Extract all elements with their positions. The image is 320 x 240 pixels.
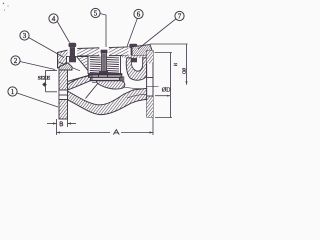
body right top xyxy=(132,45,153,56)
balloon 3 xyxy=(20,31,29,40)
body outlet hook wall xyxy=(126,58,146,80)
balloon 5 xyxy=(91,8,100,17)
dimension H vertical xyxy=(150,44,188,85)
body joint line xyxy=(58,62,81,71)
body right flange xyxy=(147,51,159,118)
leader 6 xyxy=(127,19,137,47)
body right upper block xyxy=(122,56,147,58)
dimension A xyxy=(57,118,154,136)
balloon 4 xyxy=(49,14,58,23)
svg-text:ØD: ØD xyxy=(162,86,171,93)
balloon 1 xyxy=(8,87,17,96)
seat lip xyxy=(120,76,125,83)
inlet upper wall band xyxy=(68,75,93,91)
bonnet plate xyxy=(77,47,133,56)
scan specks xyxy=(3,3,9,11)
body left flange xyxy=(59,70,68,119)
svg-text:H: H xyxy=(173,63,178,66)
leader 1 xyxy=(17,93,58,107)
bolt left B1 xyxy=(69,43,77,63)
svg-text:5: 5 xyxy=(94,10,98,18)
leader 3 xyxy=(29,38,64,58)
svg-text:4: 4 xyxy=(52,15,56,23)
disc xyxy=(88,74,122,82)
bolt hole right xyxy=(128,47,138,56)
leader 2 xyxy=(20,62,55,70)
weir wall line xyxy=(86,82,100,99)
balloon 2 xyxy=(11,56,20,65)
leader 5 xyxy=(100,14,106,48)
balloon 7 xyxy=(175,11,184,20)
stem hole xyxy=(99,47,109,56)
dimension SIZE xyxy=(46,71,58,92)
outlet passage lines xyxy=(123,87,147,89)
body left shoulder xyxy=(58,50,77,69)
leader lines xyxy=(17,14,176,108)
svg-text:ØD: ØD xyxy=(182,68,187,74)
svg-text:1: 1 xyxy=(11,88,15,96)
spring chamber walls xyxy=(87,56,89,74)
outlet bore bottom line xyxy=(127,94,147,98)
svg-text:SIZE: SIZE xyxy=(38,75,51,81)
svg-text:3: 3 xyxy=(23,32,27,40)
svg-text:2: 2 xyxy=(14,57,18,65)
dimension OD vertical xyxy=(155,53,173,118)
stem xyxy=(99,50,108,74)
balloons xyxy=(8,8,184,96)
body bottom S-wall xyxy=(68,88,147,114)
seat weir xyxy=(96,81,124,89)
leader 4 xyxy=(57,21,70,43)
balloon 6 xyxy=(134,9,143,18)
bolt right B2 xyxy=(129,44,137,63)
svg-text:7: 7 xyxy=(178,13,182,21)
bolt hole left xyxy=(68,47,78,56)
dimension B xyxy=(47,119,76,135)
spring coils xyxy=(90,57,119,73)
leader 7 xyxy=(138,19,176,49)
svg-text:6: 6 xyxy=(137,11,141,19)
inlet passage line xyxy=(68,76,91,82)
bonnet underside wall xyxy=(77,57,89,71)
flange raised face xyxy=(59,63,72,70)
